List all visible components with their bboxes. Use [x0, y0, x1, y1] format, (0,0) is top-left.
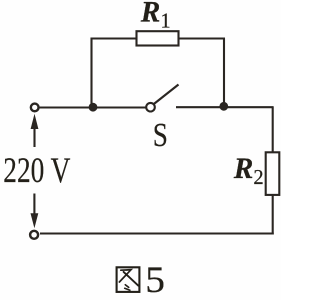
wire: right side vertical upper [272, 107, 274, 153]
svg-text:R1: R1 [140, 0, 171, 33]
wire: R1 branch top-left horizontal [91, 37, 137, 39]
arrowhead down (source polarity) [31, 213, 39, 228]
switch S lever [153, 85, 178, 105]
terminal: bottom-left [30, 231, 38, 239]
arrowhead up (source polarity) [31, 114, 39, 129]
switch S contact circle [146, 103, 155, 112]
junction node: left [89, 103, 98, 112]
caption character 图 [117, 267, 140, 292]
resistor R2 [266, 152, 280, 195]
terminal: top-left [31, 104, 39, 112]
svg-text:220 V: 220 V [3, 150, 70, 189]
wire: R1 branch right vertical [223, 39, 225, 107]
svg-text:R2: R2 [233, 153, 264, 190]
resistor R1 [137, 31, 179, 45]
junction node: right [219, 102, 228, 111]
wire: up arrow shaft [33, 128, 35, 147]
wire: main horizontal left segment [40, 106, 146, 108]
svg-text:5: 5 [145, 260, 165, 300]
wire: right side vertical lower [272, 195, 274, 235]
wire: down arrow shaft [33, 194, 35, 215]
wire: R1 branch top-right horizontal [179, 37, 226, 39]
svg-text:S: S [153, 116, 168, 154]
wire: R1 branch left vertical [90, 38, 92, 108]
wire: bottom horizontal [40, 232, 274, 234]
wire: main horizontal right segment (after switch gap) [176, 106, 274, 108]
